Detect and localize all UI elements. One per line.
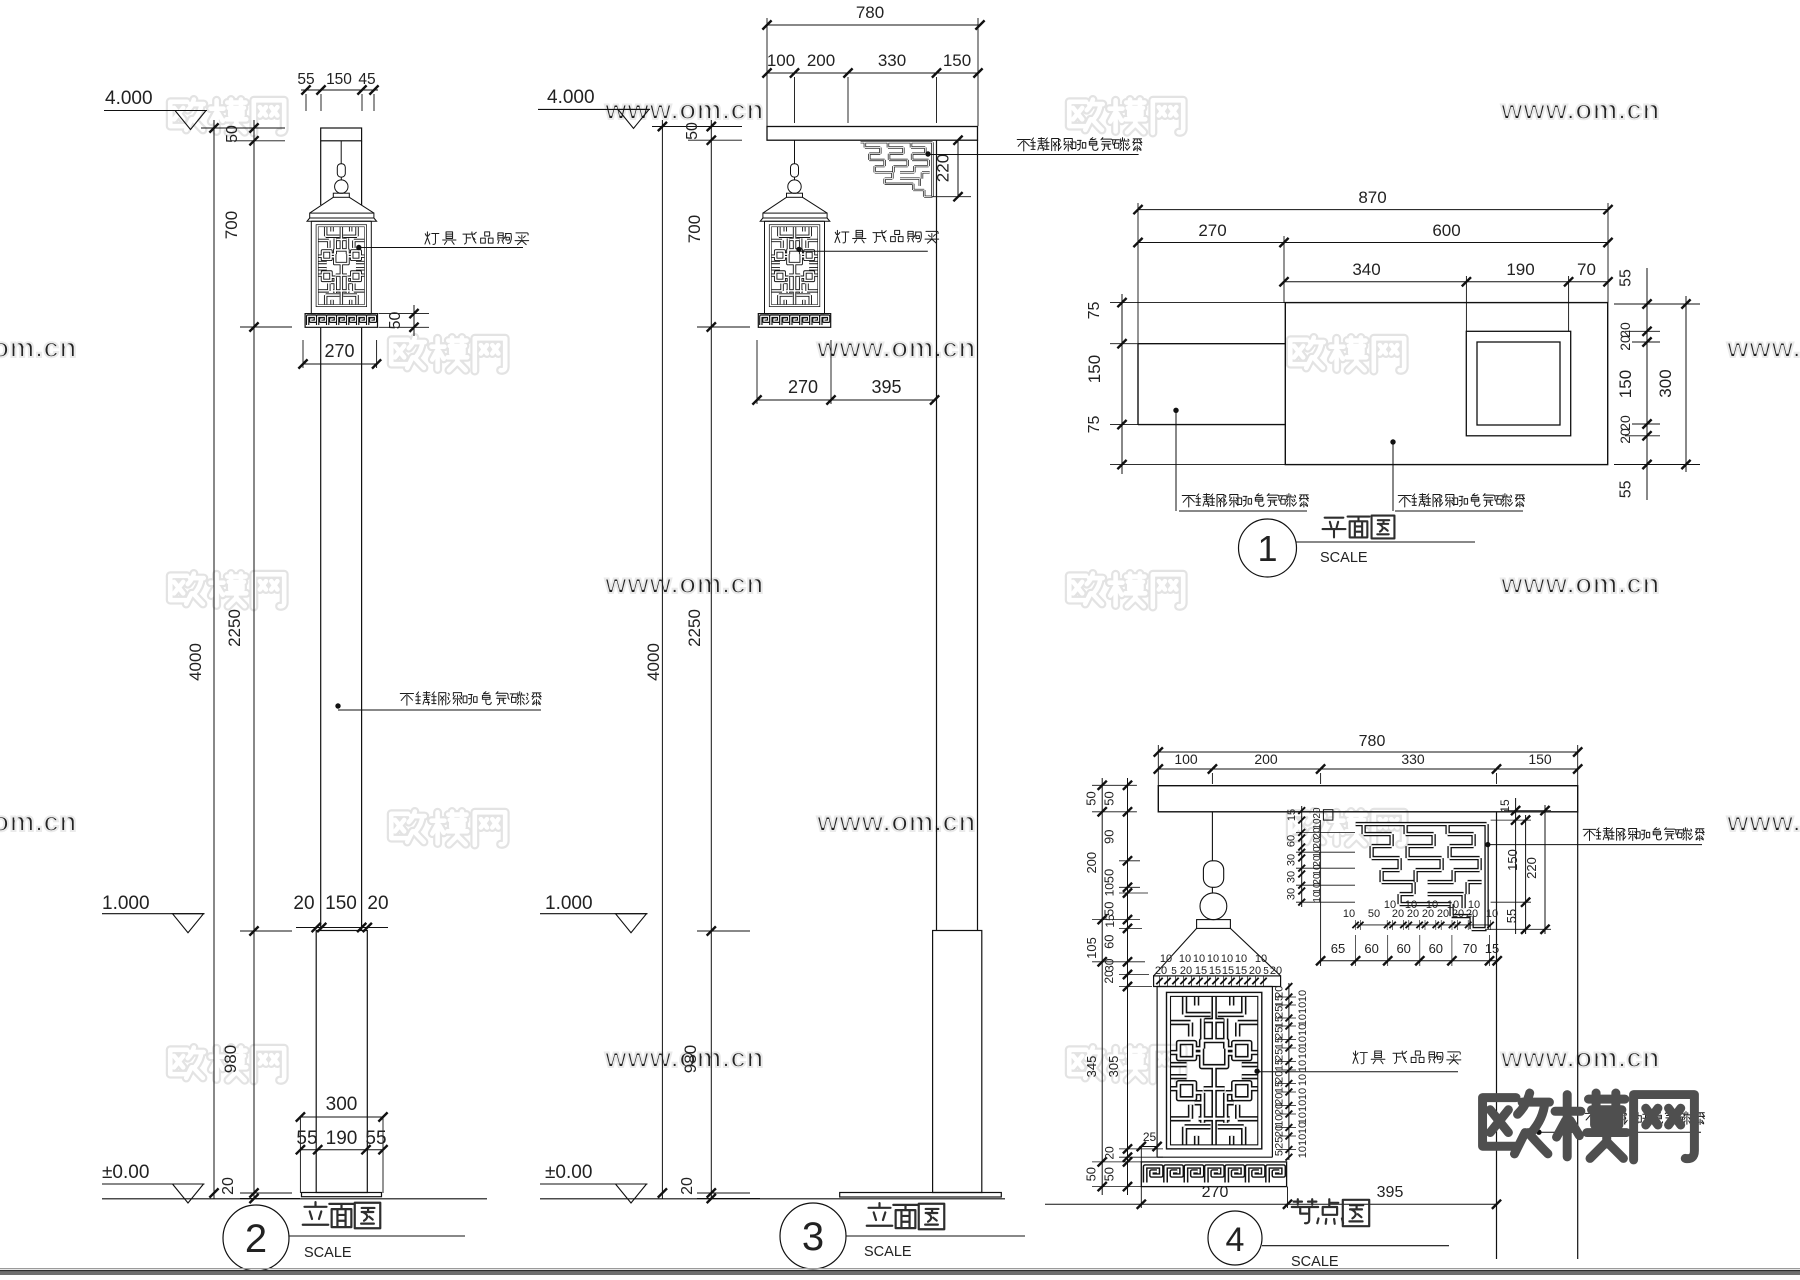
svg-text:20: 20 [1102,970,1116,984]
svg-text:10: 10 [1297,1122,1309,1134]
svg-text:55: 55 [1618,480,1635,498]
svg-text:4.000: 4.000 [547,87,595,108]
svg-text:70: 70 [1463,941,1477,956]
svg-text:4000: 4000 [644,643,663,681]
svg-text:www.om.cn: www.om.cn [1726,806,1800,837]
svg-text:60: 60 [1396,941,1410,956]
svg-text:980: 980 [221,1045,240,1073]
svg-text:300: 300 [1656,369,1675,397]
svg-text:20: 20 [1103,1146,1117,1160]
svg-text:10: 10 [1103,883,1117,897]
svg-text:50: 50 [1084,791,1099,805]
svg-text:55: 55 [296,1128,317,1149]
svg-text:1010: 1010 [1297,1002,1309,1026]
svg-text:1: 1 [1257,528,1277,569]
svg-text:150: 150 [1085,355,1104,383]
svg-text:±0.00: ±0.00 [102,1162,149,1183]
svg-text:10: 10 [1343,908,1355,920]
svg-text:190: 190 [326,1128,358,1149]
svg-text:330: 330 [878,51,906,70]
svg-text:20: 20 [1617,335,1633,351]
svg-text:www.om.cn: www.om.cn [0,806,77,837]
svg-text:www.om.cn: www.om.cn [816,806,976,837]
svg-text:395: 395 [871,377,901,397]
svg-text:20: 20 [679,1177,696,1195]
svg-text:50: 50 [387,312,404,330]
svg-text:10: 10 [1160,953,1172,965]
svg-text:200: 200 [1084,852,1099,874]
svg-text:330: 330 [1401,751,1425,767]
svg-text:10: 10 [1468,899,1480,911]
svg-text:395: 395 [1377,1184,1404,1201]
svg-text:300: 300 [326,1094,358,1115]
svg-text:20: 20 [1155,965,1167,977]
svg-text:190: 190 [1506,260,1534,279]
svg-text:60: 60 [1429,941,1443,956]
svg-text:150: 150 [1616,370,1635,398]
svg-text:55: 55 [365,1128,386,1149]
svg-text:10: 10 [1297,1074,1309,1086]
svg-text:20: 20 [1249,965,1261,977]
svg-text:15: 15 [1222,965,1234,977]
svg-text:www.om.cn: www.om.cn [1500,94,1660,125]
svg-text:30: 30 [1286,854,1298,866]
svg-text:15: 15 [1209,965,1221,977]
svg-text:200: 200 [807,51,835,70]
svg-text:25: 25 [1274,1137,1286,1149]
svg-text:www.om.cn: www.om.cn [816,332,976,363]
svg-text:5: 5 [1263,966,1269,977]
svg-text:700: 700 [685,215,704,243]
svg-text:20: 20 [1312,807,1323,819]
svg-text:45: 45 [358,71,375,88]
svg-text:4.000: 4.000 [105,88,153,109]
svg-text:10: 10 [1193,953,1205,965]
svg-text:75: 75 [1086,302,1103,320]
svg-text:60: 60 [1286,835,1298,847]
svg-text:10: 10 [1297,990,1309,1002]
svg-text:20: 20 [1270,965,1282,977]
svg-text:10: 10 [1297,1088,1309,1100]
svg-text:www.om.cn: www.om.cn [1500,568,1660,599]
svg-text:20: 20 [220,1177,237,1195]
svg-text:345: 345 [1084,1056,1099,1078]
svg-text:340: 340 [1352,260,1380,279]
svg-text:780: 780 [1359,733,1386,750]
svg-text:1010: 1010 [1297,1100,1309,1124]
svg-text:SCALE: SCALE [304,1245,352,1261]
svg-text:50: 50 [684,122,701,140]
svg-text:220: 220 [1524,857,1539,879]
svg-text:90: 90 [1102,830,1117,844]
svg-text:270: 270 [1198,221,1226,240]
svg-text:10: 10 [1255,953,1267,965]
svg-text:270: 270 [788,377,818,397]
svg-text:±0.00: ±0.00 [545,1162,592,1183]
svg-text:15: 15 [1286,809,1298,821]
svg-text:50: 50 [1084,1167,1099,1181]
svg-text:10: 10 [1297,1060,1309,1072]
svg-text:10: 10 [1221,953,1233,965]
svg-text:1010: 1010 [1297,1134,1309,1158]
svg-text:150: 150 [326,71,352,88]
svg-text:50: 50 [1102,869,1117,883]
svg-text:SCALE: SCALE [864,1244,912,1260]
svg-text:20: 20 [1274,1103,1286,1115]
svg-text:270: 270 [1202,1184,1229,1201]
svg-text:50: 50 [224,125,241,143]
svg-text:15: 15 [1235,965,1247,977]
svg-text:150: 150 [1528,751,1552,767]
svg-text:15: 15 [1274,1037,1286,1049]
svg-text:55: 55 [1504,909,1519,923]
svg-text:70: 70 [1577,260,1596,279]
svg-text:www.om.cn: www.om.cn [1726,332,1800,363]
svg-text:1.000: 1.000 [102,893,150,914]
svg-text:10: 10 [1405,899,1417,911]
svg-text:10: 10 [1486,908,1498,920]
svg-text:50: 50 [1102,791,1117,805]
svg-text:15: 15 [1485,941,1499,956]
svg-text:100: 100 [1174,751,1198,767]
svg-text:65: 65 [1331,941,1345,956]
svg-text:10: 10 [1426,899,1438,911]
svg-text:305: 305 [1106,1056,1121,1078]
svg-text:3: 3 [802,1215,824,1259]
svg-text:20: 20 [1180,965,1192,977]
svg-text:10: 10 [1207,953,1219,965]
svg-text:220: 220 [934,154,953,182]
svg-text:30: 30 [1103,958,1117,972]
svg-text:www.om.cn: www.om.cn [604,568,764,599]
svg-text:2250: 2250 [685,609,704,647]
svg-text:10: 10 [1179,953,1191,965]
svg-text:30: 30 [1286,888,1298,900]
svg-text:270: 270 [324,341,354,361]
svg-text:50: 50 [1102,902,1117,916]
svg-text:4000: 4000 [186,643,205,681]
svg-text:20: 20 [1274,1125,1286,1137]
svg-text:15: 15 [1195,965,1207,977]
svg-text:2250: 2250 [225,609,244,647]
svg-text:700: 700 [222,211,241,239]
svg-text:10: 10 [1312,891,1323,903]
svg-text:15: 15 [1274,1059,1286,1071]
svg-text:150: 150 [1505,849,1520,871]
svg-text:980: 980 [681,1045,700,1073]
svg-text:10: 10 [1447,899,1459,911]
svg-text:105: 105 [1084,937,1099,959]
svg-text:75: 75 [1086,416,1103,434]
svg-text:200: 200 [1254,751,1278,767]
svg-text:870: 870 [1358,188,1386,207]
svg-text:20: 20 [367,893,388,914]
svg-text:15: 15 [1103,914,1117,928]
svg-text:10: 10 [1297,1047,1309,1059]
svg-text:1010: 1010 [1297,1024,1309,1048]
svg-text:10: 10 [1384,899,1396,911]
svg-text:1.000: 1.000 [545,893,593,914]
svg-text:www.om.cn: www.om.cn [0,332,77,363]
svg-text:5: 5 [1274,1150,1286,1156]
svg-text:600: 600 [1432,221,1460,240]
svg-text:55: 55 [1618,269,1635,287]
svg-text:50: 50 [1368,908,1380,920]
svg-text:2: 2 [245,1217,267,1261]
svg-text:5: 5 [1171,966,1177,977]
svg-text:www.om.cn: www.om.cn [1500,1042,1660,1073]
svg-text:30: 30 [1286,871,1298,883]
svg-text:SCALE: SCALE [1320,550,1368,566]
svg-text:15: 15 [1274,1081,1286,1093]
svg-text:50: 50 [1102,1167,1117,1181]
svg-text:100: 100 [767,51,795,70]
svg-text:150: 150 [943,51,971,70]
svg-text:4: 4 [1226,1221,1245,1259]
svg-text:55: 55 [297,71,314,88]
svg-text:60: 60 [1102,934,1117,948]
svg-text:780: 780 [856,3,884,22]
svg-text:10: 10 [1235,953,1247,965]
svg-text:60: 60 [1364,941,1378,956]
svg-text:20: 20 [293,893,314,914]
svg-text:SCALE: SCALE [1291,1254,1339,1270]
svg-text:150: 150 [325,893,357,914]
